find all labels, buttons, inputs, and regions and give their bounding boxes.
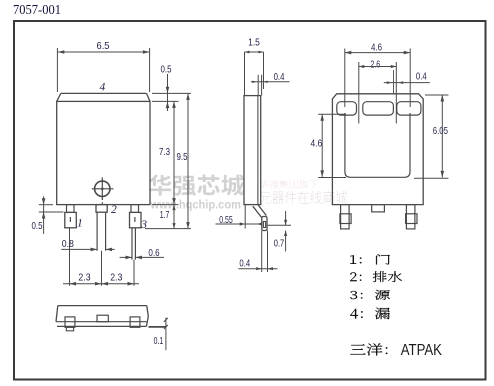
svg-text:4.6: 4.6 <box>371 42 382 54</box>
svg-text:0.5: 0.5 <box>161 64 172 76</box>
svg-text:2.3: 2.3 <box>78 272 90 284</box>
svg-text:7.3: 7.3 <box>159 146 170 158</box>
svg-text:0.4: 0.4 <box>416 71 427 83</box>
svg-text:4.6: 4.6 <box>310 138 322 150</box>
svg-text:0.1: 0.1 <box>154 335 164 347</box>
svg-text:1.7: 1.7 <box>160 209 170 221</box>
svg-text:9.5: 9.5 <box>177 151 188 163</box>
svg-text:0.4: 0.4 <box>239 258 250 270</box>
svg-text:2.6: 2.6 <box>370 59 380 71</box>
svg-text:2.3: 2.3 <box>110 272 122 284</box>
svg-text:0.5: 0.5 <box>32 220 43 232</box>
svg-text:7057-001: 7057-001 <box>13 3 61 18</box>
svg-text:ATPAK: ATPAK <box>401 342 443 359</box>
svg-text:4: 4 <box>100 82 106 94</box>
svg-text:1.5: 1.5 <box>248 37 260 49</box>
svg-text:6.05: 6.05 <box>433 125 448 137</box>
svg-text:1: 1 <box>77 218 83 230</box>
svg-text:0.7: 0.7 <box>274 238 285 250</box>
svg-text:0.8: 0.8 <box>62 238 74 250</box>
svg-text:3: 3 <box>140 219 147 231</box>
svg-text:2: 2 <box>111 204 117 216</box>
svg-text:6.5: 6.5 <box>97 40 110 52</box>
